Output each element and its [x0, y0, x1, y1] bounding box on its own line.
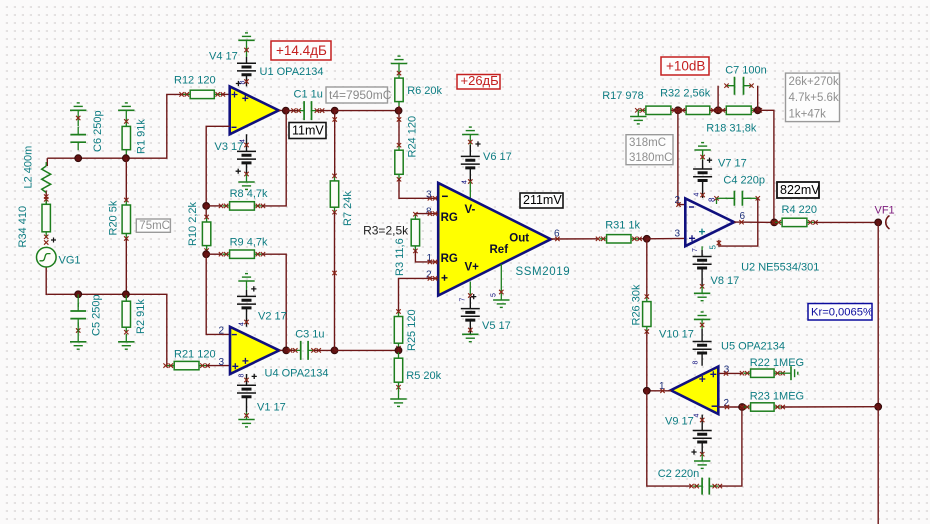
wire R7 down to C3 node — [334, 212, 336, 350]
svg-text:V10 17: V10 17 — [659, 329, 694, 341]
wire node R9 down to U4 pin2 — [206, 254, 230, 334]
junction top bus / C6 — [75, 155, 82, 162]
svg-text:V7 17: V7 17 — [718, 158, 747, 170]
wire R8 right to U1out — [262, 111, 287, 206]
value box t4=7950mC — [326, 87, 388, 103]
ground right R22 — [781, 372, 791, 374]
ground above V6 — [462, 134, 478, 136]
svg-text:RG: RG — [441, 253, 458, 265]
U4 input marks — [232, 334, 237, 336]
resistor R5 — [398, 350, 400, 354]
op-amp U5 — [671, 367, 719, 415]
battery V3 — [246, 134, 248, 174]
SSM Ref pin5 — [500, 264, 502, 300]
svg-text:R5 20k: R5 20k — [406, 370, 441, 382]
resistor R31 — [600, 238, 638, 240]
svg-text:Ref: Ref — [490, 244, 509, 256]
junction node R8 — [203, 203, 210, 210]
value box 11mV — [289, 123, 326, 139]
wire U5 pin3 to R22 — [718, 372, 743, 374]
resistor R18 — [719, 109, 758, 111]
battery V4 — [246, 40, 248, 57]
plus mark V1 — [252, 374, 257, 379]
svg-text:C7 100n: C7 100n — [725, 65, 767, 77]
svg-text:R3=2,5k: R3=2,5k — [363, 224, 409, 238]
svg-text:3180mC: 3180mC — [629, 152, 672, 164]
wire SSM out — [551, 238, 599, 240]
wire R12 to U1 pin+ — [221, 93, 230, 95]
battery V6 — [469, 135, 471, 146]
junction VF1 — [875, 219, 882, 226]
battery V8 — [701, 250, 703, 286]
annotation box +14.4dB — [271, 41, 331, 60]
svg-text:R2 91k: R2 91k — [135, 299, 147, 334]
junction R32 R18 — [715, 107, 722, 114]
svg-text:VF1: VF1 — [875, 205, 895, 217]
resistor R25 — [398, 311, 400, 350]
wire VG1 column bottom — [46, 267, 47, 294]
resistor R4 — [775, 221, 814, 223]
svg-text:7: 7 — [692, 248, 699, 252]
svg-text:5: 5 — [491, 293, 498, 297]
svg-text:R34 410: R34 410 — [17, 206, 29, 248]
plus mark V4 — [236, 81, 241, 86]
ground above V7 — [694, 149, 710, 151]
ground below V1 — [246, 412, 248, 420]
wire junction to U2 pin3 — [647, 237, 686, 239]
wire C1 plate leads — [286, 110, 298, 112]
junction U5 out — [643, 387, 650, 394]
svg-text:11mV: 11mV — [292, 123, 324, 137]
svg-text:75mC: 75mC — [139, 220, 170, 232]
capacitor C6 — [77, 110, 79, 126]
battery V7 — [702, 150, 704, 160]
ground above C6 — [70, 109, 86, 111]
wire U1 output — [279, 109, 286, 111]
battery V9 — [701, 415, 703, 455]
svg-text:U5 OPA2134: U5 OPA2134 — [721, 341, 785, 353]
resistor R12 — [183, 93, 221, 95]
inductor L2 — [45, 162, 47, 166]
svg-text:t4=7950mC: t4=7950mC — [329, 88, 392, 102]
wire SSM pin2 to R25 — [399, 278, 439, 312]
svg-text:4: 4 — [462, 180, 469, 184]
svg-text:+10dB: +10dB — [666, 58, 705, 73]
resistor R32 — [679, 109, 717, 111]
svg-text:C3 1u: C3 1u — [295, 329, 324, 341]
svg-text:U4 OPA2134: U4 OPA2134 — [265, 368, 329, 380]
junction bottom bus / C5 — [75, 291, 82, 298]
junction R23 out — [875, 403, 882, 410]
ground below Ref — [493, 299, 509, 301]
wire R31 to junction — [638, 238, 647, 240]
junction node B — [331, 107, 338, 114]
svg-text:SSM2019: SSM2019 — [516, 266, 571, 278]
wire R21 to U4 — [206, 365, 230, 367]
junction C3 out — [331, 347, 338, 354]
svg-text:R25 120: R25 120 — [406, 309, 418, 351]
svg-text:V-: V- — [465, 204, 476, 216]
svg-text:U1 OPA2134: U1 OPA2134 — [260, 66, 324, 78]
svg-text:26k+270k: 26k+270k — [789, 76, 839, 88]
ground below V8 — [701, 286, 703, 293]
svg-text:4: 4 — [694, 193, 701, 197]
resistor R20 — [125, 199, 127, 240]
battery V1 — [246, 374, 248, 412]
wire R26 to U5 node — [646, 331, 648, 391]
resistor R9 — [223, 253, 262, 255]
svg-text:3: 3 — [675, 228, 681, 239]
svg-text:R24 120: R24 120 — [407, 116, 419, 158]
wire R17R32 junction segs — [671, 109, 686, 111]
svg-text:R26 30k: R26 30k — [631, 284, 643, 325]
svg-text:R1 91k: R1 91k — [136, 119, 148, 154]
plus mark V3 — [236, 169, 241, 174]
wire R23 to VF1 line — [781, 406, 878, 408]
svg-text:Kr=0,0065%: Kr=0,0065% — [811, 307, 873, 319]
wire R9 left — [206, 253, 222, 255]
plus mark V9 — [691, 449, 696, 454]
resistor R10 — [206, 216, 208, 252]
svg-text:4: 4 — [694, 414, 701, 418]
ground below V3 — [246, 175, 248, 183]
wire R4 to VF1 — [814, 221, 878, 223]
annotation box +26dB — [457, 75, 500, 90]
junction R23 in — [739, 404, 746, 411]
svg-text:L2 400m: L2 400m — [23, 146, 35, 189]
battery V10 — [701, 319, 703, 329]
wire U1 inverting feedback — [206, 126, 230, 206]
ground above R6 — [391, 63, 407, 65]
ground above V10 — [694, 318, 710, 320]
junction R17 R32 — [675, 107, 682, 114]
resistor R6 — [398, 64, 400, 74]
resistor R21 — [167, 365, 206, 367]
op-amp U2 NE5534 — [685, 198, 734, 246]
svg-text:1k+47k: 1k+47k — [789, 108, 827, 120]
resistor R23 — [744, 406, 782, 408]
svg-text:C5 250p: C5 250p — [91, 294, 103, 336]
resistor R34 — [45, 198, 47, 238]
svg-text:RG: RG — [441, 212, 458, 224]
wire nodeB to R6R24 — [335, 110, 399, 112]
svg-text:2: 2 — [675, 195, 681, 206]
svg-text:V9 17: V9 17 — [665, 416, 694, 428]
svg-text:R12 120: R12 120 — [174, 75, 216, 87]
U1 input marks — [232, 92, 238, 98]
wire R6 to junction — [398, 106, 400, 111]
svg-text:R4 220: R4 220 — [782, 204, 817, 216]
wire junction down to R26 — [646, 239, 648, 297]
svg-text:8: 8 — [708, 197, 717, 202]
wire C3out to R25R5 — [335, 349, 399, 351]
ground below V9 — [701, 454, 703, 461]
junction node R9 — [203, 251, 210, 258]
wire R25 to junction — [398, 348, 400, 351]
capacitor C5 — [77, 294, 79, 307]
svg-text:R7 24k: R7 24k — [342, 191, 354, 226]
wire C4 loop — [719, 198, 758, 246]
value box 26k+270k — [786, 73, 840, 122]
svg-text:VG1: VG1 — [59, 255, 81, 267]
wire feedback from R18 to out — [758, 110, 774, 222]
svg-text:8: 8 — [239, 81, 246, 85]
svg-text:V+: V+ — [465, 261, 480, 273]
svg-text:+26дБ: +26дБ — [461, 73, 499, 88]
resistor R2 — [125, 295, 127, 333]
ground above V4 — [238, 39, 254, 41]
wire R8 left — [206, 205, 222, 207]
wire C2 loop left — [647, 391, 692, 486]
junction top bus / R1 — [123, 155, 130, 162]
op-amp U4 — [230, 327, 279, 374]
annotation box +10dB — [661, 57, 709, 75]
junction R18 right — [754, 107, 761, 114]
U2 minus mark — [689, 206, 694, 208]
svg-text:3: 3 — [426, 189, 432, 200]
svg-text:R23 1MEG: R23 1MEG — [750, 391, 804, 403]
capacitor C3 — [292, 349, 317, 351]
U2 pin8 comp — [716, 198, 718, 204]
U5 input marks — [710, 371, 716, 377]
svg-text:+14.4дБ: +14.4дБ — [276, 43, 327, 58]
battery V5 — [469, 297, 471, 334]
ground above V2 — [238, 280, 254, 282]
ground below R5 — [398, 387, 400, 399]
wire R24 to SSM pin3 — [399, 179, 438, 198]
svg-text:R21 120: R21 120 — [174, 349, 216, 361]
capacitor C4 — [717, 197, 728, 199]
svg-text:R32 2,56k: R32 2,56k — [660, 88, 711, 100]
annotation box Kr — [808, 304, 872, 321]
source VG1 — [37, 247, 57, 267]
SSM plus mark — [442, 275, 448, 281]
svg-text:U2 NE5534/301: U2 NE5534/301 — [741, 262, 819, 274]
ground above R1 — [118, 109, 134, 111]
svg-text:5: 5 — [709, 245, 718, 250]
junction U4 out — [283, 347, 290, 354]
capacitor C7 — [717, 86, 719, 111]
wire C3 leads — [286, 349, 295, 351]
wire VF1 down — [877, 222, 879, 406]
ground below V5 — [462, 333, 478, 335]
junction bottom bus / R2 — [123, 291, 130, 298]
U2 pin7 — [701, 246, 703, 250]
capacitor C2 — [693, 485, 718, 487]
svg-text:R31 1k: R31 1k — [605, 220, 640, 232]
resistor R22 — [744, 372, 782, 374]
svg-text:8: 8 — [693, 361, 700, 365]
svg-text:7: 7 — [460, 298, 467, 302]
svg-text:2: 2 — [219, 326, 225, 337]
battery V2 — [246, 281, 248, 290]
wire SSM pin8 to R3 — [415, 214, 438, 215]
svg-text:4.7k+5.6k: 4.7k+5.6k — [789, 92, 839, 104]
op-amp U1 — [230, 86, 279, 134]
svg-text:R17 978: R17 978 — [602, 90, 644, 102]
wire U2 pin2 — [678, 110, 685, 204]
ground R17 left — [637, 110, 639, 116]
wire nodeB down to R7 — [334, 111, 336, 176]
resistor R24 — [398, 111, 400, 145]
ground below C5 — [70, 341, 86, 343]
svg-text:R22 1MEG: R22 1MEG — [750, 357, 804, 369]
wire R3 to SSM pin1 — [415, 250, 438, 262]
svg-text:V2 17: V2 17 — [258, 311, 287, 323]
value box 75mC — [136, 219, 170, 232]
svg-text:R9 4,7k: R9 4,7k — [230, 237, 268, 249]
svg-text:822mV: 822mV — [780, 183, 820, 197]
svg-text:C1 1u: C1 1u — [294, 89, 323, 101]
junction R25 R5 — [395, 347, 402, 354]
svg-text:V3 17: V3 17 — [215, 141, 244, 153]
resistor R8 — [223, 205, 262, 207]
svg-text:4: 4 — [239, 322, 246, 326]
plus mark V6 — [475, 141, 480, 146]
wire R10 joins — [205, 206, 207, 217]
svg-text:Out: Out — [509, 233, 529, 245]
wire R20 column — [125, 158, 127, 200]
value box 822mV — [777, 182, 819, 198]
svg-text:8: 8 — [239, 374, 246, 378]
wire R9 right to U4out — [262, 254, 287, 350]
svg-text:V1 17: V1 17 — [257, 402, 286, 414]
resistor R1 — [125, 110, 127, 121]
plus mark V2 — [251, 286, 256, 291]
capacitor C1 — [295, 110, 320, 112]
svg-text:R18 31,8k: R18 31,8k — [706, 123, 757, 135]
resistor R17 — [639, 109, 678, 111]
wire U4 output — [279, 349, 286, 351]
wire VF1 down lower — [877, 407, 879, 524]
junction R31 out — [643, 235, 650, 242]
svg-text:3: 3 — [219, 357, 225, 368]
svg-text:R10 2,2k: R10 2,2k — [187, 201, 199, 246]
resistor R7 — [334, 175, 336, 213]
wire VG1 column top — [46, 158, 48, 166]
svg-text:V5 17: V5 17 — [482, 320, 511, 332]
svg-text:R3 11,6: R3 11,6 — [394, 238, 406, 276]
wire U5 out — [647, 390, 672, 392]
svg-text:R6 20k: R6 20k — [407, 85, 442, 97]
svg-text:V4 17: V4 17 — [209, 51, 238, 63]
svg-text:R8 4,7k: R8 4,7k — [230, 188, 268, 200]
junction U1 out — [282, 107, 289, 114]
junction U2 out — [771, 219, 778, 226]
svg-text:V8 17: V8 17 — [711, 275, 740, 287]
svg-text:318mC: 318mC — [629, 137, 666, 149]
svg-text:211mV: 211mV — [523, 193, 562, 207]
svg-text:C4 220p: C4 220p — [723, 175, 765, 187]
svg-text:C6 250p: C6 250p — [92, 110, 104, 152]
svg-text:C2 220n: C2 220n — [658, 468, 700, 480]
svg-text:R20 5k: R20 5k — [108, 200, 120, 235]
resistor R3 — [414, 213, 416, 252]
wire V6 to SSM — [469, 182, 471, 199]
U2 input marks — [689, 235, 695, 241]
resistor R26 — [646, 296, 648, 333]
plus mark V7 — [707, 158, 712, 163]
wire C2 loop right — [720, 407, 742, 486]
wire U2 output — [734, 221, 774, 223]
junction R6 R24 — [395, 107, 402, 114]
terminal VF1 — [886, 216, 890, 230]
SSM V+ pin7 — [469, 282, 471, 296]
value box 318mC 3180mC — [626, 135, 673, 165]
wire bottom input bus — [47, 294, 175, 365]
svg-text:V6 17: V6 17 — [483, 151, 512, 163]
wire top input bus — [47, 94, 190, 158]
SSM minus mark — [442, 195, 448, 197]
value box 211mV — [520, 193, 563, 208]
wire U5 pin2 to R23 — [718, 406, 742, 408]
ground below R2 — [118, 341, 134, 343]
op-amp SSM2019 — [438, 183, 551, 296]
